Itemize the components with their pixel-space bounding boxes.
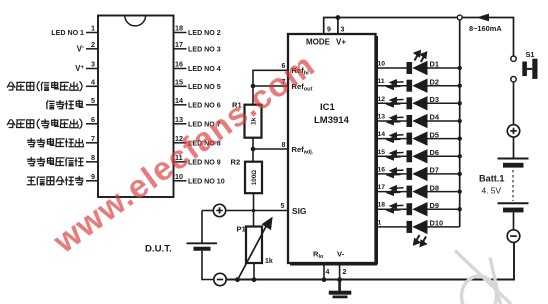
wire D10 anode to bus [428, 226, 460, 228]
pin9 label (operating mode select) [27, 176, 83, 185]
LED D6 emission arrows [388, 151, 404, 160]
junction dot D5/bus [458, 136, 462, 140]
DIP left pin stubs 1-9 [86, 33, 98, 181]
wire pin7 Ref_out [253, 85, 288, 87]
LED D7 cathode bar [407, 168, 413, 180]
LED D2 triangle [412, 79, 427, 93]
wire D1 anode to bus [428, 67, 460, 69]
svg-text:LED NO 1: LED NO 1 [51, 29, 84, 37]
LED D3 triangle [412, 96, 427, 110]
svg-text:13: 13 [378, 114, 386, 121]
LED D9 triangle [412, 202, 427, 216]
svg-text:8~160mA: 8~160mA [469, 24, 502, 33]
pin4 label (divider low-voltage end) [7, 82, 82, 91]
svg-text:5: 5 [91, 96, 95, 105]
svg-text:D8: D8 [430, 183, 439, 192]
LED D7 triangle [412, 167, 427, 181]
junction dot D6/bus [458, 154, 462, 158]
wire SIG (pin5) to + terminal [226, 210, 288, 212]
svg-text:9: 9 [327, 27, 331, 34]
svg-text:1: 1 [91, 24, 95, 33]
svg-text:5: 5 [281, 203, 285, 210]
pin6 label (divider high-voltage end) [7, 119, 82, 128]
LED D9 emission arrows [388, 204, 404, 213]
LED D8 triangle [412, 184, 427, 198]
svg-text:17: 17 [175, 40, 183, 49]
svg-text:6: 6 [91, 115, 95, 124]
LED D6 triangle [412, 149, 427, 163]
wire IC1 pin 14 to D5 cathode [376, 138, 408, 140]
wire IC1 pin9 stub to top bus [324, 18, 514, 56]
battery Batt.1 dashed middle link [512, 170, 514, 201]
junction dot R1/R2/pin8 [251, 147, 256, 152]
svg-text:12: 12 [378, 96, 386, 103]
LED D1 triangle [412, 61, 427, 75]
gray watermark glyph (bottom right) [455, 251, 511, 304]
DIP right labels LED NO 2-10 [188, 29, 225, 185]
current direction arrow on top bus [477, 14, 490, 22]
wire IC1 pin 13 to D4 cathode [376, 120, 408, 122]
terminal - (battery side) [507, 230, 520, 243]
battery Batt.1 cell2 negative plate [503, 208, 524, 213]
svg-text:2: 2 [91, 40, 95, 49]
svg-text:D5: D5 [430, 130, 439, 139]
svg-text:14: 14 [175, 96, 183, 105]
ground symbol [329, 280, 352, 299]
LED D10 emission arrows [414, 235, 426, 246]
svg-text:2: 2 [343, 269, 347, 276]
LED D9 cathode bar [407, 203, 413, 215]
svg-text:D10: D10 [430, 219, 444, 228]
wire IC1 pin 1 to D10 cathode [376, 226, 408, 228]
svg-text:MODE: MODE [306, 38, 331, 47]
svg-text:8: 8 [91, 153, 95, 162]
wire IC1 pin 17 to D8 cathode [376, 191, 408, 193]
battery Batt.1 cell2 positive plate [498, 202, 529, 204]
resistor R2 100ohm [245, 162, 262, 194]
battery Batt.1 cell1 positive plate [498, 158, 529, 160]
LED D1 cathode bar [407, 62, 413, 74]
svg-text:LM3914: LM3914 [314, 115, 350, 126]
junction dot SIG/R2/P1 [252, 209, 255, 212]
svg-text:Batt.1: Batt.1 [479, 174, 505, 184]
svg-text:9: 9 [91, 172, 95, 181]
LED D4 triangle [412, 114, 427, 128]
svg-text:V-: V- [337, 250, 345, 259]
junction dot D3/bus [458, 101, 462, 105]
junction dot P1 wiper/bus [235, 277, 240, 282]
LED D1 emission arrows [415, 51, 427, 62]
svg-text:17: 17 [378, 184, 386, 191]
svg-text:IC1: IC1 [320, 102, 336, 113]
svg-text:LED NO 2: LED NO 2 [188, 29, 221, 37]
LED D8 cathode bar [407, 186, 413, 198]
svg-text:LED NO 3: LED NO 3 [188, 45, 221, 53]
svg-text:18: 18 [378, 202, 386, 209]
junction dot pin2/bus [337, 277, 342, 282]
wire pin8 Ref_adj to R1/R2 junction [253, 148, 288, 150]
svg-text:SIG: SIG [292, 206, 306, 216]
svg-text:16: 16 [378, 166, 386, 173]
svg-text:D9: D9 [430, 201, 439, 210]
svg-text:LED NO 5: LED NO 5 [188, 83, 221, 91]
svg-text:1: 1 [378, 219, 382, 226]
wire bottom bus [226, 243, 514, 280]
LED D2 emission arrows [388, 80, 404, 89]
LED D2 cathode bar [407, 80, 413, 92]
DIP left pin numbers 1-9 [91, 24, 95, 181]
svg-text:16: 16 [175, 60, 183, 69]
terminal + (battery side) [507, 125, 519, 137]
wire D6 anode to bus [428, 155, 460, 157]
battery D.U.T. positive plate [187, 242, 218, 244]
pin8 label (reference voltage adjust) [28, 157, 84, 166]
DIP package U1 (LM3914 pinout diagram) [98, 16, 174, 198]
svg-text:LED NO 4: LED NO 4 [188, 65, 221, 73]
svg-text:100Ω: 100Ω [251, 170, 258, 185]
wire Batt.1 to - terminal [513, 212, 515, 229]
svg-text:4: 4 [326, 269, 330, 276]
wire IC1 pin4 to bus [323, 263, 325, 280]
LED D6 cathode bar [407, 150, 413, 162]
LED D4 emission arrows [388, 115, 404, 124]
wire D8 anode to bus [428, 191, 460, 193]
svg-text:3: 3 [341, 27, 345, 34]
svg-text:15: 15 [175, 77, 183, 86]
DIP right pin stubs 18-10 [174, 33, 187, 181]
svg-text:8: 8 [282, 142, 286, 149]
junction dot D4/bus [458, 119, 462, 123]
wire P1 bottom to ground bus [253, 263, 255, 280]
wire IC1 pin 12 to D3 cathode [376, 102, 408, 104]
LED D10 triangle [412, 220, 427, 234]
battery D.U.T. negative plate [194, 247, 211, 251]
wire + terminal to left branch [202, 210, 213, 212]
svg-text:15: 15 [378, 149, 386, 156]
wire R1 bottom to R2 top [252, 138, 254, 162]
IC1 name label IC1 LM3914 [314, 102, 350, 126]
wire S1 to battery + terminal [513, 82, 515, 125]
node circle LED bus / top bus [457, 15, 462, 20]
LED D5 cathode bar [407, 133, 413, 145]
battery Batt.1 cell1 negative plate [503, 163, 524, 168]
wire pin6 Ref_hi to R1 top [253, 70, 288, 104]
LED D4 cathode bar [407, 115, 413, 127]
svg-text:D4: D4 [430, 113, 440, 122]
svg-text:4: 4 [91, 77, 95, 86]
wire D4 anode to bus [428, 120, 460, 122]
LED D3 emission arrows [388, 98, 404, 107]
wire D7 anode to bus [428, 173, 460, 175]
junction dot D2/bus [458, 84, 462, 88]
svg-text:D3: D3 [430, 95, 439, 104]
svg-text:R2: R2 [231, 158, 241, 167]
resistor R1 1k [245, 105, 262, 138]
svg-text:D.U.T.: D.U.T. [145, 244, 172, 255]
svg-text:D6: D6 [430, 148, 439, 157]
junction dot pin7/R1 [251, 84, 256, 89]
LED D3 cathode bar [407, 97, 413, 109]
svg-text:LED NO 10: LED NO 10 [188, 177, 225, 185]
LED D5 emission arrows [388, 133, 404, 142]
wire left branch down to DUT battery [201, 211, 203, 244]
svg-text:D2: D2 [430, 77, 439, 86]
junction dot D7/bus [458, 172, 462, 176]
svg-text:P1: P1 [237, 225, 247, 234]
svg-text:V+: V+ [336, 38, 346, 47]
wire D3 anode to bus [428, 102, 460, 104]
wire IC1 pin 15 to D6 cathode [376, 155, 408, 157]
potentiometer P1 body [246, 227, 262, 264]
wire DUT battery to - terminal [202, 251, 214, 280]
terminal + (D.U.T. positive) [213, 204, 225, 216]
wire IC1 pin 18 to D9 cathode [376, 208, 408, 210]
switch S1 pushbutton [511, 56, 538, 82]
junction dot pin4/bus [322, 277, 327, 282]
svg-text:D1: D1 [430, 60, 439, 69]
DIP right pin numbers 18-10 [175, 24, 183, 181]
LED D5 triangle [412, 131, 427, 145]
terminal - (D.U.T. negative) [214, 273, 226, 285]
wire R2 bottom to P1 top [253, 193, 255, 226]
wire LED anode bus [459, 20, 461, 227]
svg-text:18: 18 [175, 24, 183, 33]
svg-text:7: 7 [91, 134, 95, 143]
svg-text:D7: D7 [430, 166, 439, 175]
wire IC1 pin 11 to D2 cathode [376, 85, 408, 87]
LED D7 emission arrows [388, 168, 404, 177]
op IC1 LM3914 block [288, 34, 377, 265]
svg-text:10: 10 [378, 61, 386, 68]
svg-text:11: 11 [378, 78, 385, 85]
svg-text:S1: S1 [526, 50, 535, 59]
wire IC1 pin 10 to D1 cathode [376, 67, 408, 69]
wire IC1 pin3 stub [337, 18, 339, 35]
svg-text:4. 5V: 4. 5V [482, 186, 502, 196]
junction dot D9/bus [458, 207, 462, 211]
svg-text:14: 14 [378, 131, 386, 138]
wire D2 anode to bus [428, 85, 460, 87]
wire IC1 pin 16 to D7 cathode [376, 173, 408, 175]
LED D8 emission arrows [388, 186, 404, 195]
wire + terminal to Batt.1 cell [513, 137, 515, 158]
svg-text:1k: 1k [265, 258, 273, 265]
P1 wiper arrow [238, 219, 272, 281]
junction dot D8/bus [458, 189, 462, 193]
junction dot pin3/top bus [336, 15, 341, 20]
wire D5 anode to bus [428, 138, 460, 140]
junction dot D1/bus [458, 66, 462, 70]
pin7 label (reference voltage output) [28, 138, 84, 146]
svg-text:13: 13 [175, 115, 183, 124]
svg-text:3: 3 [91, 60, 95, 69]
pin5 label (signal input) [47, 100, 83, 109]
LED D10 cathode bar [407, 221, 413, 233]
wire IC1 pin2 to bus [339, 263, 341, 280]
junction dot P1 bottom/bus [252, 277, 257, 282]
wire D9 anode to bus [428, 208, 460, 210]
